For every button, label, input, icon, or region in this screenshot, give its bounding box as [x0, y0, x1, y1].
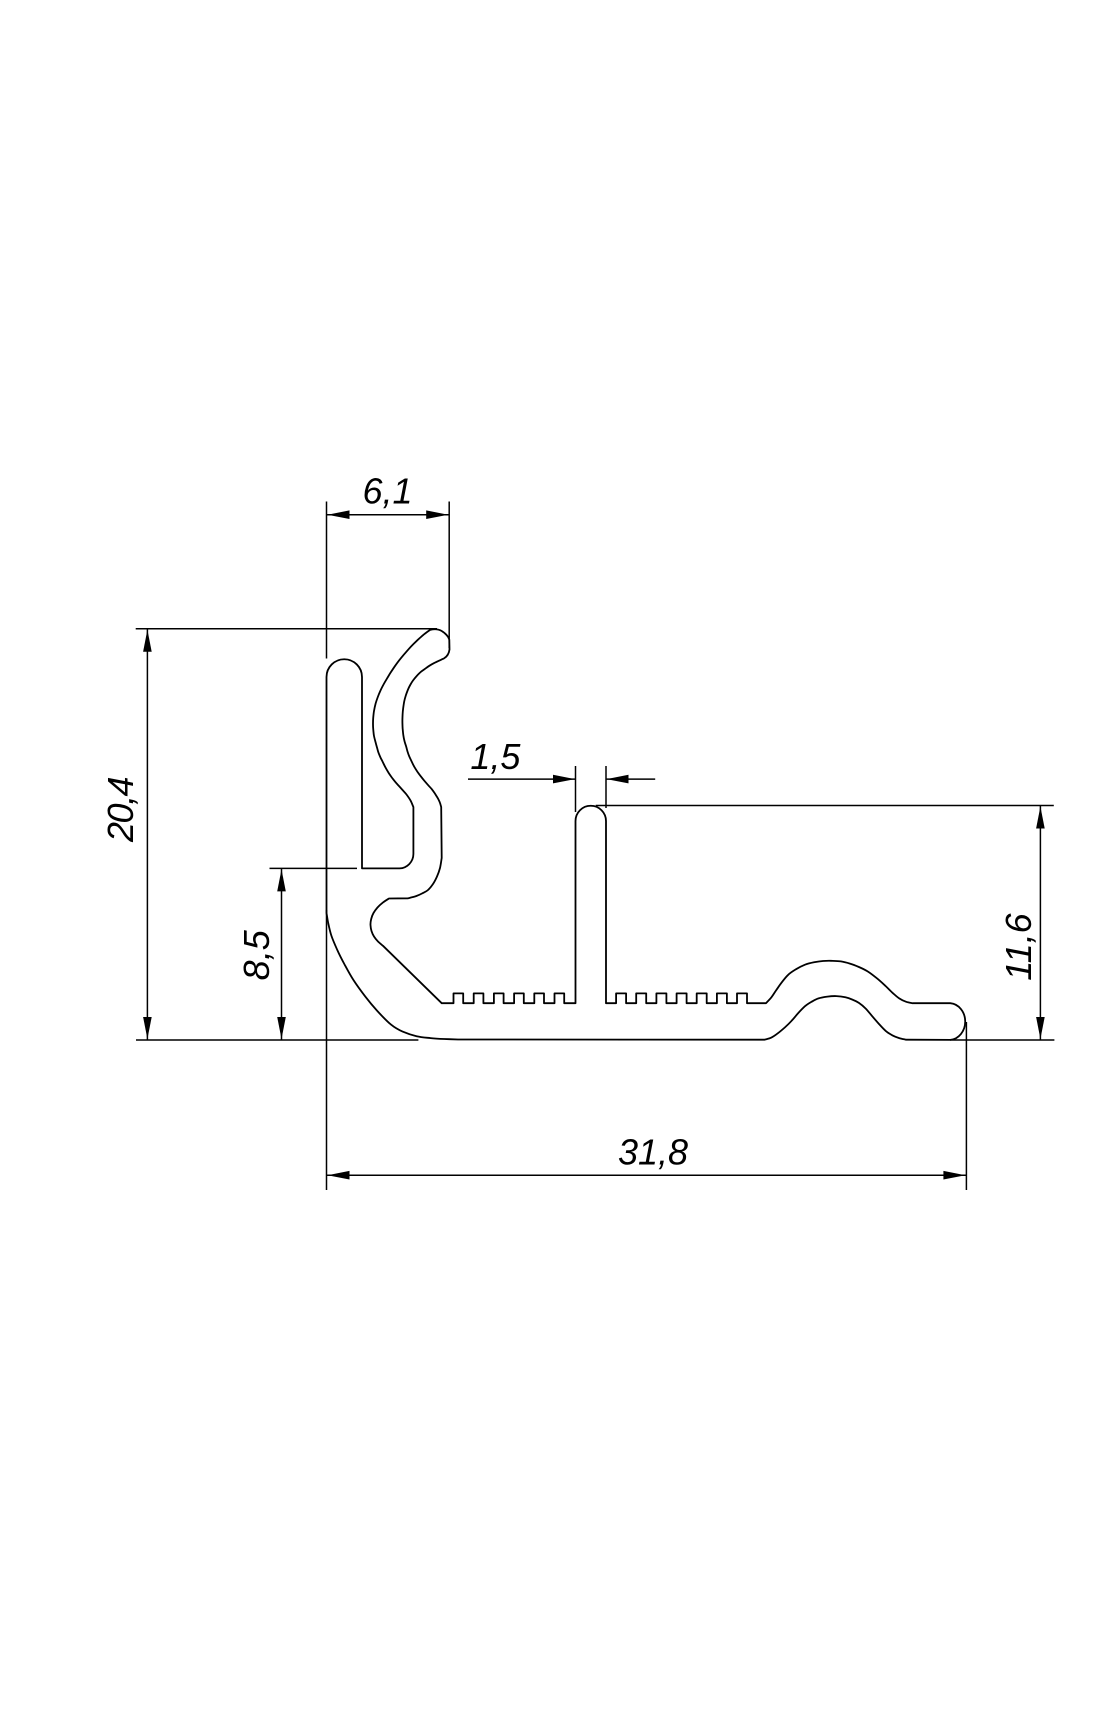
dimension line 20,4 — [146, 629, 148, 1040]
arrow 8,5 top — [277, 869, 286, 891]
svg-text:8,5: 8,5 — [236, 929, 277, 980]
extension line 11,6 top — [596, 805, 1054, 807]
arrow 6,1 right — [426, 510, 448, 519]
arrow 31,8 right — [943, 1171, 965, 1180]
arrow 20,4 bottom — [143, 1017, 152, 1039]
arrow 1,5 left — [553, 775, 575, 784]
dimension line 8,5 — [281, 868, 283, 1040]
arrow 6,1 left — [328, 510, 350, 519]
arrow 8,5 bottom — [277, 1017, 286, 1039]
arrow 11,6 top — [1036, 807, 1045, 829]
extension line 20,4 / 8,5 bottom — [136, 1039, 418, 1041]
arrow 20,4 top — [143, 630, 152, 652]
arrow 11,6 bottom — [1036, 1017, 1045, 1039]
svg-text:1,5: 1,5 — [470, 736, 521, 777]
extension line 6,1 left — [326, 502, 328, 659]
extension line 8,5 top — [270, 867, 358, 869]
extension line 11,6 bottom — [950, 1039, 1054, 1041]
extension line 20,4 top — [136, 628, 437, 630]
extension line 1,5 left — [575, 766, 577, 812]
extension line 1,5 right — [605, 766, 607, 808]
dimension line 31,8 — [327, 1174, 967, 1176]
extension line 31,8 left — [326, 910, 328, 1190]
svg-text:31,8: 31,8 — [618, 1132, 688, 1173]
dimension line 1,5 left part — [468, 778, 576, 780]
dimension line 1,5 right part — [606, 778, 655, 780]
svg-text:11,6: 11,6 — [998, 912, 1039, 980]
svg-text:20,4: 20,4 — [100, 777, 141, 843]
svg-text:6,1: 6,1 — [362, 471, 412, 512]
extension line 6,1 right — [448, 502, 450, 649]
extension line 31,8 right — [965, 1022, 967, 1190]
arrow 31,8 left — [328, 1171, 350, 1180]
arrow 1,5 right — [607, 775, 629, 784]
dimension line 11,6 — [1039, 806, 1041, 1041]
dimension line 6,1 — [327, 514, 450, 516]
profile outline — [327, 629, 966, 1040]
